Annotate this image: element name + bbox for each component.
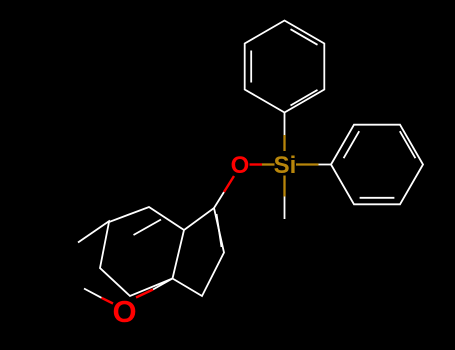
- wire: Si-methyl bond silicon half (dark gold): [283, 176, 285, 197]
- wire: Si methyl (carbon half, white): [284, 197, 286, 220]
- svg-text:Si: Si: [274, 152, 297, 179]
- wire: O-Si bond oxygen half (red): [250, 163, 263, 165]
- double-bond dash inside ring R1: [217, 214, 222, 247]
- double-bond dashes of ring P2: [344, 131, 416, 198]
- ring R2 (left ring of bicyclic system): [100, 207, 184, 296]
- ring R1 (right carbocycle of bicyclic system): [173, 208, 225, 296]
- double-bond dashes of ring P1: [251, 29, 317, 105]
- svg-text:O: O: [112, 294, 136, 329]
- wire: O-C1 bond oxygen half (red): [224, 176, 234, 192]
- double-bond dash at ring R2 upper left: [78, 221, 110, 243]
- phenyl ring P1 (top phenyl on Si): [245, 21, 325, 113]
- svg-text:O: O: [231, 152, 250, 179]
- wire: Si-O bond silicon half (dark gold): [262, 163, 275, 165]
- wire: Si-P2 bond silicon half (dark gold): [296, 163, 319, 165]
- phenyl ring P2 (right phenyl on Si): [331, 125, 423, 205]
- wire: ether O to ring carbon C1 (carbon half, white): [214, 192, 224, 208]
- wire: Si-P1 bond silicon half (dark gold): [283, 135, 285, 151]
- wire: Si to P1 (carbon half, white): [284, 113, 286, 136]
- wire: bottom O to ring carbon (carbon half, white): [153, 279, 173, 290]
- wire: methoxy methyl to O (carbon half, white): [84, 289, 102, 298]
- wire: Si to P2 (carbon half, white): [319, 164, 332, 166]
- wire: methoxy O-CH3 bond oxygen half (red): [102, 298, 114, 304]
- wire: methoxy O-ring bond oxygen half (red): [136, 290, 153, 298]
- double-bond dash inside ring R2: [134, 220, 162, 236]
